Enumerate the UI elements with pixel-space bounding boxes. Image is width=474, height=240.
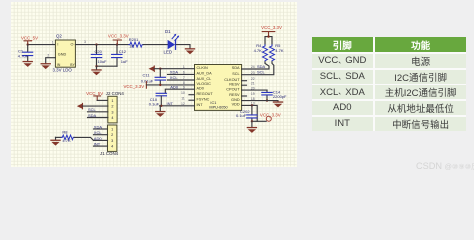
svg-text:4.7K: 4.7K — [275, 48, 284, 53]
svg-text:2200pF: 2200pF — [273, 94, 287, 99]
ground C20 C12 — [91, 66, 101, 75]
svg-text:I: I — [57, 42, 58, 46]
op-amp U1 : chip IC1 MPU-6050 — [195, 65, 242, 111]
svg-text:SDA: SDA — [88, 113, 97, 118]
svg-text:VCC_3.3V: VCC_3.3V — [108, 34, 129, 39]
wire net INT J1 — [94, 142, 108, 147]
svg-text:4.7K: 4.7K — [62, 138, 71, 143]
node junction C20 — [95, 43, 97, 45]
wire CLKIN — [154, 68, 194, 70]
svg-text:CLKIN: CLKIN — [197, 66, 208, 70]
node junction C202 top — [251, 104, 253, 106]
svg-text:SCL: SCL — [257, 70, 266, 75]
wire J2 pin1 — [97, 99, 108, 101]
svg-text:Q2: Q2 — [56, 34, 62, 39]
power port VCC_3.3V circle — [260, 113, 281, 122]
pin numbers right 24 23 22 21 20 19 18 13 — [251, 65, 255, 105]
svg-text:INT: INT — [197, 103, 204, 107]
table row 3 XCL XDA — [312, 85, 374, 99]
wire net SCL J2 — [88, 107, 108, 112]
resistor R8 — [61, 129, 74, 143]
ground Q2 — [41, 63, 51, 69]
node junction C1 — [27, 43, 29, 45]
wire RESV19 stub — [242, 95, 247, 97]
svg-text:J1 CON4: J1 CON4 — [100, 151, 119, 156]
svg-text:3: 3 — [111, 110, 113, 114]
svg-text:FSYNC: FSYNC — [197, 97, 210, 101]
power port VCC_3.3V VLOGIC — [123, 82, 146, 90]
ground R8 — [50, 137, 60, 145]
wire pullup tops — [265, 37, 272, 45]
capacitor C11 — [141, 69, 166, 85]
node junction C14 — [266, 99, 268, 101]
wire GND pin18 — [242, 100, 278, 103]
LED D1 — [164, 29, 180, 54]
wire net XDA J1 — [94, 124, 108, 129]
wire net AD0 — [165, 84, 194, 93]
svg-text:VCC_3.3V: VCC_3.3V — [261, 25, 282, 30]
capacitor C202 — [236, 105, 257, 121]
svg-text:1: 1 — [52, 41, 54, 45]
wire net AD0 J1 — [94, 136, 108, 141]
ground arrow port CLKIN — [149, 66, 155, 71]
svg-text:XCL: XCL — [94, 130, 103, 135]
svg-text:INT: INT — [94, 142, 101, 147]
svg-text:IC1: IC1 — [210, 101, 216, 105]
svg-text:MPU-6050: MPU-6050 — [209, 106, 227, 110]
svg-text:0.01uF: 0.01uF — [141, 79, 154, 84]
svg-text:AD0: AD0 — [170, 84, 179, 89]
wire REGOUT stub — [189, 94, 195, 96]
node junction VLOGIC — [159, 84, 161, 86]
svg-text:3: 3 — [84, 40, 86, 44]
table backdrop — [312, 37, 467, 131]
svg-text:GND: GND — [231, 98, 240, 102]
wire J2 pin2 — [83, 105, 108, 107]
ground pin18 — [273, 101, 283, 107]
wire cap bottoms — [97, 65, 118, 67]
svg-text:AUX_CL: AUX_CL — [197, 77, 212, 81]
svg-text:SCL: SCL — [232, 72, 239, 76]
node junction C202 bottom — [251, 120, 253, 122]
wire R8 left — [56, 136, 62, 138]
svg-text:C20: C20 — [95, 49, 103, 54]
svg-text:4: 4 — [111, 116, 113, 120]
node junction INT gnd — [160, 105, 162, 107]
svg-text:CLKOUT: CLKOUT — [224, 78, 240, 82]
svg-text:3: 3 — [111, 139, 113, 143]
svg-text:11: 11 — [181, 96, 185, 100]
table header 功能 — [375, 37, 466, 52]
svg-text:2: 2 — [47, 53, 49, 57]
svg-text:C12: C12 — [119, 49, 127, 54]
svg-text:0.1uF: 0.1uF — [236, 113, 247, 118]
wire R201 to LED — [143, 44, 167, 46]
ground LED — [185, 48, 195, 54]
table row 1 VCC GND — [312, 54, 374, 68]
svg-text:AD0: AD0 — [197, 86, 204, 90]
wire CLKOUT stub — [242, 80, 247, 82]
power port VCC_3.3V rail — [108, 34, 129, 45]
wire net XDA — [168, 70, 195, 75]
svg-text:J2 CON4: J2 CON4 — [106, 91, 125, 96]
resistor R201 — [129, 37, 144, 49]
wire VDD bottom — [252, 120, 266, 122]
svg-text:22: 22 — [251, 77, 255, 81]
capacitor C10 — [149, 93, 167, 106]
svg-text:CPOUT: CPOUT — [226, 87, 240, 91]
svg-text:C11: C11 — [143, 73, 151, 78]
svg-text:R8: R8 — [62, 129, 68, 134]
wire VDD — [242, 105, 258, 121]
connector J2 CON4 — [106, 91, 125, 123]
capacitor C14 — [262, 90, 287, 101]
svg-text:R201: R201 — [129, 37, 139, 42]
capacitor C12 — [112, 45, 129, 67]
ground C10 — [155, 106, 165, 117]
ground arrow port J2 pin2 — [77, 103, 83, 108]
watermark — [416, 161, 474, 172]
capacitor C20 — [91, 45, 107, 67]
svg-text:SDA: SDA — [257, 64, 266, 69]
wire VLOGIC — [146, 84, 194, 86]
svg-text:1K: 1K — [129, 44, 134, 49]
capacitor C1 — [18, 45, 33, 61]
svg-text:4.7uF: 4.7uF — [18, 54, 29, 59]
wire LED cathode — [176, 45, 190, 49]
wire CPOUT — [242, 89, 267, 91]
svg-text:VDD: VDD — [232, 103, 240, 107]
table row 4 AD0 — [312, 101, 374, 115]
resistor R4 — [254, 43, 268, 62]
svg-text:RESV: RESV — [229, 93, 240, 97]
svg-text:2: 2 — [111, 105, 113, 109]
svg-text:REGOUT: REGOUT — [197, 92, 214, 96]
connector J1 CON4 — [100, 125, 119, 156]
wire FSYNC stub — [189, 99, 195, 101]
svg-text:XDA: XDA — [94, 124, 103, 129]
wire net XCL — [168, 75, 195, 80]
wire net INT — [160, 101, 195, 106]
wire net SDA J2 — [88, 113, 108, 118]
svg-text:D1: D1 — [165, 29, 171, 34]
svg-text:VCC_3.3V: VCC_3.3V — [123, 84, 144, 89]
power port VCC_3.3V pullups — [261, 25, 282, 37]
node junction VCC33 — [116, 43, 118, 45]
svg-text:SDA: SDA — [232, 66, 240, 70]
ground C202 — [247, 121, 257, 133]
table header 引脚 — [312, 37, 374, 52]
svg-text:AD0: AD0 — [94, 136, 103, 141]
svg-text:10: 10 — [181, 91, 185, 95]
node junction cap gnd — [95, 65, 97, 67]
svg-text:1: 1 — [111, 99, 113, 103]
wire R8 to AD0 — [74, 137, 93, 140]
wire 3.3V rail — [75, 44, 128, 46]
table row 2 SCL SDA — [312, 70, 374, 84]
svg-text:LED: LED — [164, 50, 173, 55]
svg-text:GND: GND — [58, 53, 67, 57]
svg-text:10uF: 10uF — [98, 59, 108, 64]
svg-text:0.1uF: 0.1uF — [149, 101, 160, 106]
ground C1 — [23, 61, 33, 67]
schematic grid panel — [11, 2, 297, 167]
svg-text:4.7K: 4.7K — [254, 48, 263, 53]
svg-text:O: O — [71, 42, 74, 46]
svg-text:1: 1 — [111, 127, 113, 131]
regulator Q2 3.3V LDO — [53, 34, 76, 73]
resistor R5 — [270, 43, 284, 62]
wire Q2 gnd pin — [46, 58, 56, 63]
table row 5 INT — [312, 117, 374, 131]
svg-text:IN: IN — [57, 63, 61, 67]
wire RESV21 stub — [242, 84, 247, 86]
svg-text:3.3V LDO: 3.3V LDO — [53, 67, 73, 72]
svg-text:AUX_DA: AUX_DA — [197, 72, 213, 76]
power port VCC_5V — [21, 35, 38, 44]
wire SCL — [242, 62, 274, 75]
power port VCC_5V J2 — [86, 91, 103, 101]
svg-text:19: 19 — [251, 92, 255, 96]
pin numbers left 1 6 7 8 9 10 11 12 — [181, 65, 185, 106]
svg-text:4: 4 — [111, 145, 113, 149]
wire net XCL J1 — [94, 130, 108, 135]
svg-text:2: 2 — [111, 133, 113, 137]
svg-text:RESV: RESV — [229, 82, 240, 86]
svg-text:BY: BY — [70, 63, 75, 67]
svg-text:VCC_5V: VCC_5V — [21, 35, 38, 40]
svg-text:1uF: 1uF — [121, 59, 128, 64]
svg-text:21: 21 — [251, 81, 255, 85]
wire 5V rail — [28, 44, 56, 46]
svg-text:SCL: SCL — [88, 107, 97, 112]
wire SDA — [242, 62, 269, 69]
svg-text:INT: INT — [167, 101, 174, 106]
node junction CLKIN — [159, 68, 161, 70]
svg-text:XDA: XDA — [170, 70, 179, 75]
svg-text:XCL: XCL — [170, 75, 179, 80]
svg-text:VCC_5V: VCC_5V — [86, 91, 103, 96]
node junction pullups — [267, 35, 269, 37]
